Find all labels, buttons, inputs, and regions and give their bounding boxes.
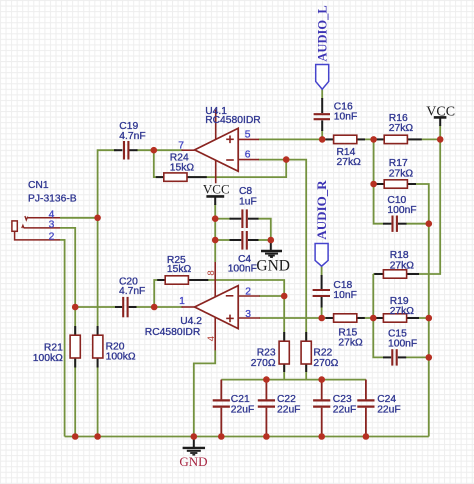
- label R18: [390, 250, 415, 271]
- black lead C15 right: [398, 356, 406, 358]
- svg-text:1: 1: [179, 296, 185, 307]
- wire R23 bottom to caps bus: [283, 364, 285, 380]
- node C8 junction: [212, 215, 219, 222]
- wire U4.1 pin5 to node D: [259, 138, 323, 140]
- wire AUDIO_L port to C16: [321, 89, 323, 99]
- svg-text:10nF: 10nF: [333, 290, 356, 301]
- node bus C21 junction: [218, 433, 225, 440]
- svg-text:10nF: 10nF: [334, 111, 357, 122]
- black lead C19 left: [114, 149, 122, 151]
- node E junction R14-R16: [370, 136, 377, 143]
- svg-text:22uF: 22uF: [277, 404, 300, 415]
- node bus GND junction: [191, 433, 198, 440]
- wire VCC1 to U4.2 pin8: [214, 204, 216, 262]
- port AUDIO_R: [314, 180, 329, 266]
- black lead C4 right: [248, 239, 259, 241]
- black lead R25 right: [188, 279, 208, 281]
- wire node J to R15: [322, 317, 334, 319]
- power symbol VCC1 bar: [206, 196, 224, 205]
- wire R15 to node K: [357, 317, 384, 319]
- label C21: [231, 394, 254, 415]
- svg-text:270Ω: 270Ω: [313, 358, 338, 369]
- svg-text:270Ω: 270Ω: [251, 358, 276, 369]
- black lead C16 top: [321, 98, 323, 113]
- svg-text:R21: R21: [44, 343, 63, 354]
- svg-text:15kΩ: 15kΩ: [167, 264, 192, 275]
- resistor R19: [383, 314, 406, 322]
- label R24: [170, 153, 195, 174]
- wire R21 bottom to bus: [74, 357, 76, 437]
- black lead R22 bottom: [305, 364, 307, 372]
- label C10: [387, 195, 416, 216]
- svg-text:CN1: CN1: [28, 180, 49, 191]
- ground GND2 symbol: [261, 240, 282, 257]
- wire C16 to node D: [321, 130, 323, 139]
- black lead R19 right: [407, 317, 419, 319]
- wire R20 bottom to bus: [97, 357, 99, 437]
- svg-text:100nF: 100nF: [387, 205, 416, 216]
- wire node B down to R24 left: [154, 150, 165, 177]
- resistor R15: [334, 314, 357, 322]
- black lead R23 top: [283, 332, 285, 341]
- node C15 right junction: [426, 354, 433, 361]
- wire node D to R14: [322, 138, 333, 140]
- label R25: [167, 255, 192, 275]
- black lead C18 top: [321, 275, 323, 289]
- svg-text:15kΩ: 15kΩ: [170, 163, 195, 174]
- wire node B to U4.1 pin7: [154, 149, 183, 151]
- node C22 top junction: [263, 376, 270, 383]
- svg-text:27kΩ: 27kΩ: [389, 168, 414, 179]
- svg-text:27kΩ: 27kΩ: [389, 123, 414, 134]
- resistor R20: [93, 335, 103, 358]
- node GND2 junction: [268, 237, 275, 244]
- svg-text:VCC: VCC: [426, 104, 455, 119]
- capacitor C20 plates: [123, 297, 127, 317]
- wire ground bus: [65, 436, 429, 438]
- power symbol VCC2 bar: [434, 117, 447, 126]
- capacitor C22: [258, 380, 275, 437]
- capacitor C19 plates: [124, 141, 128, 160]
- node C23 top junction: [318, 376, 325, 383]
- resistor R14: [334, 135, 357, 143]
- label C18: [333, 280, 356, 301]
- wire node G to C20: [75, 306, 117, 308]
- wire U4.2 pin2 to node I: [259, 295, 284, 297]
- label R16: [389, 113, 414, 134]
- label C8: [239, 186, 257, 207]
- wire U4.1 pin6 to node C: [259, 159, 287, 161]
- wire AUDIO_R port to C18: [321, 266, 323, 276]
- black lead C4 left: [230, 239, 242, 241]
- capacitor C15 plates: [392, 349, 396, 365]
- wire node E down to R17 left: [373, 139, 375, 184]
- label C24: [377, 394, 400, 415]
- label C15: [388, 328, 417, 349]
- black lead R19 left: [374, 317, 383, 319]
- resistor R23: [279, 341, 289, 364]
- resistor R24: [164, 173, 187, 181]
- black lead R22 top: [305, 332, 307, 341]
- svg-text:4.7nF: 4.7nF: [119, 131, 145, 142]
- op-amp U4.2: [182, 262, 261, 350]
- wire node E2 down to C10 left: [374, 184, 384, 224]
- svg-text:3: 3: [49, 219, 55, 230]
- wire R24 right up to node C: [187, 160, 286, 178]
- black lead R17 left: [375, 183, 385, 185]
- svg-text:100nF: 100nF: [388, 338, 417, 349]
- wire C4 left: [215, 239, 231, 241]
- resistor R22: [301, 341, 311, 364]
- svg-text:GND: GND: [179, 454, 207, 469]
- wire C8 right elbow to C4 right: [258, 219, 271, 240]
- svg-text:22uF: 22uF: [377, 404, 400, 415]
- node bus R20 junction: [94, 433, 101, 440]
- node K junction R15-R19: [370, 315, 377, 322]
- capacitor C4 plates: [242, 231, 246, 250]
- black lead C20 right: [129, 306, 137, 308]
- wire caps top bus: [221, 379, 366, 381]
- capacitor C21: [213, 380, 230, 437]
- black lead R23 bottom: [283, 364, 285, 372]
- svg-text:7: 7: [178, 140, 184, 151]
- svg-text:1uF: 1uF: [239, 196, 257, 207]
- svg-text:27kΩ: 27kΩ: [390, 260, 415, 271]
- node bus R21 junction: [72, 433, 79, 440]
- wire R22 bottom to caps bus: [305, 364, 307, 380]
- svg-text:27kΩ: 27kΩ: [338, 338, 363, 349]
- black lead R15 left: [326, 317, 334, 319]
- node C junction: [283, 156, 290, 163]
- wire C18 to node J: [321, 307, 323, 318]
- svg-text:22uF: 22uF: [231, 404, 254, 415]
- node bus C22 junction: [263, 433, 270, 440]
- wire R17 right to right rail: [407, 184, 428, 224]
- resistor R16: [384, 135, 407, 143]
- wire node F down to R18 right: [407, 139, 441, 274]
- wire U4.2 pin3 to node J: [260, 317, 322, 319]
- svg-text:5: 5: [245, 129, 251, 140]
- black lead R14 right: [357, 138, 365, 140]
- label CN1: [28, 180, 77, 205]
- black lead C10 left: [383, 223, 391, 225]
- node E2 junction R17: [370, 181, 377, 188]
- svg-text:8: 8: [206, 270, 217, 275]
- svg-text:AUDIO_R: AUDIO_R: [314, 180, 329, 240]
- wire R14 to node E: [357, 138, 384, 140]
- black lead R16 left: [375, 138, 385, 140]
- svg-text:22uF: 22uF: [333, 404, 356, 415]
- resistor R21: [70, 335, 80, 358]
- wire C20 to node H: [136, 306, 154, 308]
- svg-text:AUDIO_L: AUDIO_L: [316, 5, 330, 61]
- wire CN1 pin2 down left rail: [60, 240, 65, 437]
- svg-text:6: 6: [245, 150, 251, 161]
- black lead R18 left: [374, 273, 383, 275]
- label R19: [390, 296, 415, 317]
- capacitor C24: [357, 380, 374, 437]
- svg-text:100kΩ: 100kΩ: [33, 353, 63, 364]
- node bus C24 junction: [363, 433, 370, 440]
- node B junction: [151, 147, 158, 154]
- black lead R14 left: [326, 138, 334, 140]
- wire R17 left lead: [374, 183, 385, 185]
- node I junction: [281, 293, 288, 300]
- svg-text:100kΩ: 100kΩ: [106, 352, 136, 363]
- black lead R16 right: [407, 138, 421, 140]
- svg-text:R14: R14: [337, 147, 356, 158]
- black lead R21 top: [74, 326, 76, 335]
- wire R25 right to node I: [188, 280, 284, 296]
- black lead R20 bottom: [97, 358, 99, 368]
- ground GND1 symbol: [183, 437, 205, 455]
- resistor R18: [383, 270, 406, 278]
- label R23: [251, 348, 276, 369]
- label U4.1: [205, 106, 261, 126]
- black lead R17 right: [407, 183, 416, 185]
- wire C10 right to rail: [406, 223, 429, 225]
- capacitor C18 plates: [313, 290, 330, 296]
- wire C19 right to node B: [137, 149, 154, 151]
- svg-text:VCC: VCC: [203, 181, 230, 196]
- wire R16 to node F: [407, 138, 440, 140]
- svg-text:27kΩ: 27kΩ: [337, 157, 362, 168]
- wire CN1 pin4 to node A: [60, 217, 98, 219]
- svg-text:100nF: 100nF: [228, 264, 257, 275]
- node G junction: [72, 304, 79, 311]
- node D junction C16: [319, 136, 326, 143]
- black lead C10 right: [398, 223, 407, 225]
- wire node C to R22 top: [286, 160, 306, 342]
- svg-text:4.7nF: 4.7nF: [119, 286, 145, 297]
- label R22: [313, 348, 338, 369]
- black lead C8 right: [248, 218, 259, 220]
- label R20: [106, 341, 136, 362]
- svg-text:3: 3: [245, 309, 251, 320]
- black lead R20 top: [97, 326, 99, 335]
- node H junction: [151, 304, 158, 311]
- resistor R17: [384, 180, 407, 188]
- node J junction C18: [318, 315, 325, 322]
- node F junction VCC2: [437, 136, 444, 143]
- wire node A up to C19 left: [98, 150, 117, 218]
- black lead C8 left: [230, 218, 242, 220]
- black lead C15 left: [383, 356, 391, 358]
- black lead R24 left: [156, 176, 164, 178]
- node bus C23 junction: [318, 433, 325, 440]
- port AUDIO_L: [316, 5, 330, 89]
- capacitor C10 plates: [393, 216, 397, 232]
- wire R18 left down through node K to C15: [373, 274, 383, 357]
- label C19: [119, 121, 145, 142]
- svg-text:27kΩ: 27kΩ: [390, 306, 415, 317]
- capacitor C8 plates: [242, 209, 246, 228]
- black lead R15 right: [357, 317, 365, 319]
- wire C4 right: [258, 239, 271, 241]
- connector CN1 jack: [12, 216, 60, 240]
- svg-text:RC4580IDR: RC4580IDR: [145, 327, 201, 338]
- black lead C18 bottom: [321, 297, 323, 308]
- label C4: [228, 254, 257, 275]
- wire node H up to R25 left: [154, 280, 165, 307]
- resistor R25: [165, 276, 188, 284]
- node R19 right junction: [426, 315, 433, 322]
- black lead R18 right: [407, 273, 419, 275]
- svg-text:2: 2: [49, 231, 55, 242]
- wire VCC2 to node F: [439, 125, 441, 139]
- svg-text:PJ-3136-B: PJ-3136-B: [28, 194, 77, 205]
- wire node A down to R20: [97, 218, 99, 336]
- label R15: [338, 328, 363, 349]
- label C16: [334, 101, 357, 122]
- svg-text:RC4580IDR: RC4580IDR: [205, 115, 261, 126]
- wire node H to U4.2 pin1: [154, 306, 182, 308]
- op-amp U4.1: [182, 109, 260, 183]
- label U4.2: [145, 316, 202, 338]
- svg-text:U4.2: U4.2: [180, 316, 202, 327]
- wire R19 to right rail: [407, 317, 429, 319]
- label C22: [277, 394, 300, 415]
- label R14: [337, 147, 362, 168]
- label C23: [333, 394, 356, 415]
- black lead C20 left: [115, 306, 122, 308]
- node C4 junction: [212, 237, 219, 244]
- black lead C16 bottom: [321, 120, 323, 131]
- svg-text:GND: GND: [256, 257, 290, 274]
- wire C8 left: [215, 218, 231, 220]
- wire U4.2 pin4 down to gnd bus: [194, 350, 215, 436]
- label R21: [33, 343, 63, 365]
- svg-text:2: 2: [245, 287, 251, 298]
- svg-text:4: 4: [206, 335, 217, 341]
- black lead R25 left: [157, 279, 165, 281]
- wire C15 right to rail: [406, 356, 429, 358]
- label R17: [389, 158, 414, 179]
- label C20: [119, 277, 145, 297]
- wire R18 left lead horiz: [373, 273, 383, 275]
- node C10 right junction: [426, 220, 433, 227]
- wire right rail C10 to bus: [428, 224, 430, 437]
- black lead R21 bottom: [74, 358, 76, 368]
- node A junction: [94, 215, 101, 222]
- black lead C19 right: [129, 149, 138, 151]
- capacitor C16 plates: [314, 114, 330, 119]
- wire node I down to R23: [283, 296, 285, 341]
- capacitor C23: [313, 380, 330, 437]
- black lead R24 right: [187, 176, 207, 178]
- wire CN1 pin3 to R21: [60, 228, 75, 336]
